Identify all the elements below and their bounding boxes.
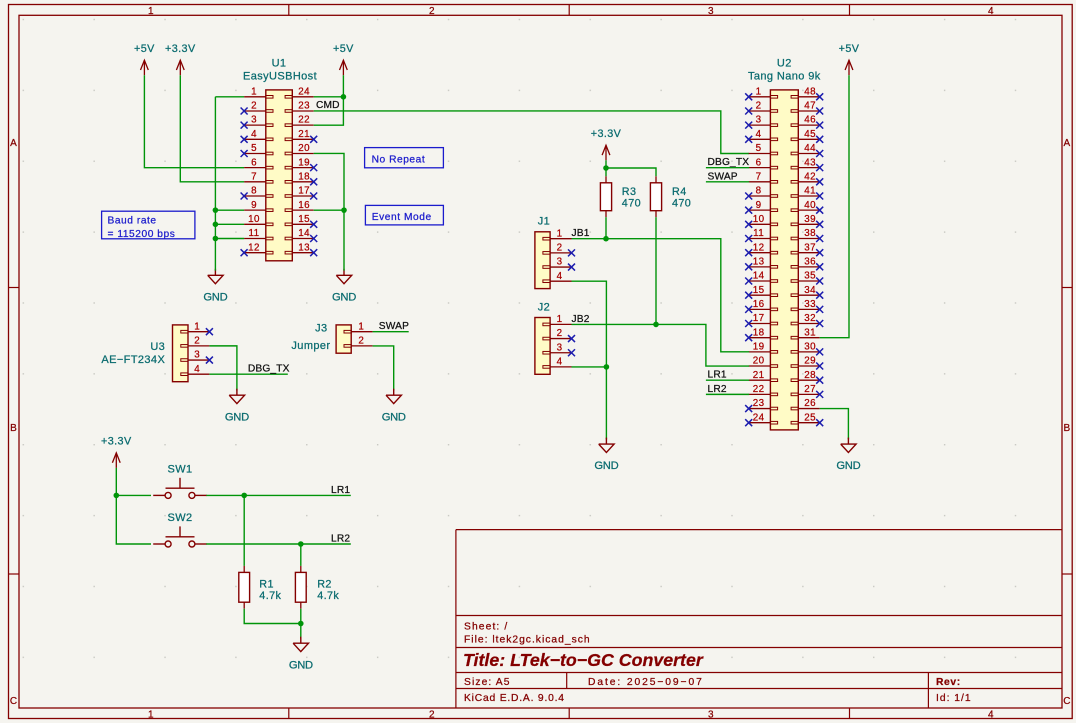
wire U1 pin22 up to +5V node [314,97,344,125]
svg-text:EasyUSBHost: EasyUSBHost [243,70,317,82]
svg-text:GND: GND [594,460,618,472]
svg-text:5: 5 [251,143,257,154]
wire U1 pin16 [314,209,344,211]
svg-text:37: 37 [804,242,816,253]
svg-text:1: 1 [358,321,364,332]
svg-text:SWAP: SWAP [708,171,738,182]
connector J1 body [535,232,550,289]
wire branch to R4 [606,168,656,176]
title block size field [464,677,511,688]
J2 reference label [538,302,550,314]
U2 value label Tang Nano 9k [748,70,821,82]
svg-text:LR1: LR1 [708,370,727,381]
wire R2 top [300,544,302,566]
J1 no-connect flags pins 2,3 [568,249,575,270]
U1 reference label [272,57,287,69]
wire J1 pin4 down to GND bus [572,281,607,439]
svg-text:1: 1 [756,86,762,97]
R4 value label 470 [672,198,691,210]
svg-text:DBG_TX: DBG_TX [248,364,290,375]
svg-text:18: 18 [298,171,310,182]
svg-text:15: 15 [298,214,310,225]
svg-text:16: 16 [753,299,765,310]
svg-text:GND: GND [382,411,406,423]
svg-text:4: 4 [194,364,200,375]
junction R4 / JB2 [653,322,659,328]
junction SW2 / R2 [298,541,304,547]
svg-text:U3: U3 [150,341,165,353]
junction SW1 / R1 [241,493,247,499]
junction +3.3V branch [603,165,609,171]
svg-text:2: 2 [557,242,563,253]
wire U2 pin22 LR2 [706,393,749,395]
svg-text:2: 2 [429,710,435,721]
net label LR1 at U2 pin21 [708,370,727,381]
R4 top pin stub [655,176,657,183]
svg-text:47: 47 [804,101,816,112]
switch SW2 [153,526,207,547]
svg-text:2: 2 [194,335,200,346]
U2 right pins 48-25 [791,96,820,425]
wire U1 pin9 [215,209,244,211]
svg-text:23: 23 [298,101,310,112]
svg-text:13: 13 [753,256,765,267]
svg-text:19: 19 [298,157,310,168]
svg-text:3: 3 [756,115,762,126]
net label CMD [316,100,340,111]
frame row ticks [9,288,1073,575]
svg-text:29: 29 [804,356,816,367]
wire U2 pin21 LR1 [706,379,749,381]
resistor R1 body [239,572,250,602]
svg-text:26: 26 [804,398,816,409]
connector J3 body [336,325,351,353]
R1 value label 4.7k [259,590,281,602]
wire vertical left bus to GND [214,97,216,271]
power symbol +5V right of U2 [839,43,860,75]
svg-text:R1: R1 [259,579,274,591]
svg-text:3: 3 [194,350,200,361]
svg-text:8: 8 [756,186,762,197]
U1 right pins 24-13 [285,96,314,254]
power symbol +5V left of U1 [134,43,155,75]
U1 no-connect flags left pins 2,3,4,5,8,12 [241,107,248,256]
svg-text:SW1: SW1 [167,464,192,476]
title block title field [463,650,704,670]
svg-text:No Repeat: No Repeat [372,154,426,165]
wire U1 pin20 down to pin16 and GND [314,153,344,270]
svg-text:LR1: LR1 [331,485,350,496]
svg-text:+5V: +5V [839,43,860,55]
junction U1 pin11 bus [213,236,219,242]
svg-text:5: 5 [756,143,762,154]
U1 right pin numbers [298,86,310,253]
svg-text:U2: U2 [777,57,792,69]
svg-text:470: 470 [672,198,691,210]
svg-text:10: 10 [248,214,260,225]
svg-text:2: 2 [756,101,762,112]
U2 reference label [777,57,792,69]
ground symbol below U2 [836,438,860,473]
svg-text:40: 40 [804,200,816,211]
resistor R4 body [650,183,661,211]
svg-text:23: 23 [753,398,765,409]
title block sheet field [464,621,508,632]
svg-text:28: 28 [804,370,816,381]
R2 reference label [317,579,332,591]
svg-text:2: 2 [358,336,364,347]
net label DBG_TX at U3 [248,364,290,375]
svg-text:4.7k: 4.7k [317,590,339,602]
wire U3 pin4 DBG_TX [209,373,287,375]
svg-text:JB2: JB2 [572,314,590,325]
J1 reference label [538,216,550,228]
svg-text:22: 22 [753,384,765,395]
svg-text:43: 43 [804,157,816,168]
svg-text:CMD: CMD [316,100,340,111]
connector J2 body [535,318,550,375]
svg-text:470: 470 [622,198,641,210]
wire U2 pin7 SWAP [706,181,749,183]
svg-text:38: 38 [804,228,816,239]
R4 bottom pin stub [655,211,657,218]
svg-text:19: 19 [753,341,765,352]
ground symbol below R1/R2 [289,637,313,672]
U2 left pin numbers [753,86,765,423]
svg-text:Sheet: /: Sheet: / [464,621,508,632]
wire U2 pin6 DBG_TX [706,167,749,169]
J3 pin numbers [358,321,364,346]
svg-text:25: 25 [804,412,816,423]
svg-text:17: 17 [753,313,765,324]
power symbol +5V right of U1 [333,43,354,75]
svg-text:1: 1 [194,321,200,332]
text box No Repeat [365,148,444,168]
svg-text:3: 3 [557,342,563,353]
wire J2 pin4 to GND bus [572,366,607,368]
wire +3.3V branch to SW1 [116,494,151,496]
svg-text:LR2: LR2 [331,534,350,545]
svg-text:39: 39 [804,214,816,225]
J3 value label Jumper [291,340,330,352]
svg-text:SWAP: SWAP [379,321,409,332]
svg-text:17: 17 [298,186,310,197]
svg-text:3: 3 [557,257,563,268]
J1 pins 1-4 [543,237,572,282]
svg-text:44: 44 [804,143,816,154]
svg-text:C: C [1063,696,1071,707]
title block date field [588,677,704,688]
svg-text:3: 3 [251,115,257,126]
net label LR1 [331,485,350,496]
J2 pins 1-4 [543,323,572,368]
J2 pin numbers [557,314,563,368]
svg-text:3: 3 [708,710,714,721]
U2 left pins 1-24 [749,96,778,425]
U2 right pin numbers [804,86,816,423]
svg-text:8: 8 [251,186,257,197]
junction +5V / pin24 / pin22 [341,94,347,100]
svg-text:4: 4 [557,357,563,368]
junction +3.3V / SW1 [114,493,120,499]
connector U1 EasyUSBHost body [266,90,293,261]
svg-text:Tang Nano 9k: Tang Nano 9k [748,70,821,82]
power symbol +3.3V above R3 [591,128,622,160]
ground symbol below U1 right [332,269,356,304]
U3 pins 1-4 [181,330,210,375]
svg-text:LR2: LR2 [708,384,727,395]
wire JB2 from J2 pin1 to U2 pin20 [572,324,750,366]
svg-text:15: 15 [753,285,765,296]
switch SW1 [153,478,207,499]
title block kicad version field [464,693,565,704]
svg-text:KiCad E.D.A. 9.0.4: KiCad E.D.A. 9.0.4 [464,693,565,704]
ground symbol below J3 [382,389,406,424]
svg-text:Date: 2025−09−07: Date: 2025−09−07 [588,677,704,688]
R4 reference label [672,186,687,198]
svg-text:6: 6 [756,157,762,168]
J1 pin numbers [557,228,563,282]
svg-text:21: 21 [753,370,765,381]
U1 left pin numbers [248,86,260,253]
svg-text:41: 41 [804,186,816,197]
svg-text:J3: J3 [315,323,327,335]
svg-text:9: 9 [251,200,257,211]
wire +5V to U2 pin31 [820,75,849,337]
resistor R3 body [600,183,611,211]
J2 no-connect flags pins 2,3 [568,335,575,356]
svg-text:20: 20 [753,356,765,367]
svg-text:Baud rate: Baud rate [108,215,157,226]
U3 pin numbers [194,321,200,375]
connector U3 body [173,325,189,382]
svg-text:J1: J1 [538,216,550,228]
svg-text:J2: J2 [538,302,550,314]
R1 bottom pin stub [243,602,245,609]
wire R3 bottom to JB1 net [605,217,607,239]
power symbol +3.3V left of U1 [165,43,196,75]
svg-text:16: 16 [298,200,310,211]
svg-text:Size: A5: Size: A5 [464,677,511,688]
wire U1 pin11 [215,238,244,240]
junction U1 pin9 bus [213,207,219,213]
title block id field [936,693,972,704]
svg-text:4: 4 [251,129,257,140]
svg-text:18: 18 [753,327,765,338]
junction R3 / JB1 [603,236,609,242]
svg-text:1: 1 [557,314,563,325]
svg-text:GND: GND [203,291,227,303]
svg-text:GND: GND [225,411,249,423]
wire U1 pin24 [314,96,344,98]
svg-text:= 115200 bps: = 115200 bps [108,229,176,240]
svg-text:10: 10 [753,214,765,225]
title block file field [464,635,591,646]
frame column ticks [289,5,850,719]
svg-text:20: 20 [298,143,310,154]
ground symbol below U3 [225,389,249,424]
text box Event Mode [365,205,443,225]
net label LR2 [331,534,350,545]
U3 reference label [150,341,165,353]
svg-text:14: 14 [298,228,310,239]
svg-text:24: 24 [753,412,765,423]
svg-text:Rev:: Rev: [936,677,961,688]
svg-text:Id: 1/1: Id: 1/1 [936,693,972,704]
svg-text:1: 1 [148,6,154,17]
R3 bottom pin stub [605,211,607,218]
connector U2 Tang Nano 9k body [770,90,798,430]
svg-text:GND: GND [332,291,356,303]
R1 reference label [259,579,274,591]
svg-text:File: ltek2gc.kicad_sch: File: ltek2gc.kicad_sch [464,635,591,646]
svg-text:+3.3V: +3.3V [591,128,622,140]
junction U1 pin16 [341,207,347,213]
resistor R2 body [295,572,306,602]
svg-text:1: 1 [557,228,563,239]
svg-text:31: 31 [804,327,816,338]
svg-text:R3: R3 [622,186,637,198]
svg-text:7: 7 [756,171,762,182]
U1 value label EasyUSBHost [243,70,317,82]
net label SWAP at U2 pin7 [708,171,738,182]
wire SW1 to LR1 [206,494,350,496]
U2 no-connect flags right [816,93,823,426]
svg-text:4: 4 [557,271,563,282]
U1 left pins 1-12 [244,96,273,254]
svg-text:4: 4 [756,129,762,140]
svg-text:+5V: +5V [134,43,155,55]
svg-text:9: 9 [756,200,762,211]
svg-text:36: 36 [804,256,816,267]
svg-text:1: 1 [251,86,257,97]
svg-text:24: 24 [298,86,310,97]
svg-text:A: A [1063,138,1070,149]
svg-text:DBG_TX: DBG_TX [708,157,750,168]
svg-text:GND: GND [836,460,860,472]
svg-text:+3.3V: +3.3V [101,436,132,448]
SW1 reference label [167,464,192,476]
wire U1 pin1 to left bus [215,96,244,98]
svg-text:11: 11 [249,228,260,239]
svg-text:21: 21 [298,129,310,140]
svg-text:A: A [10,138,17,149]
svg-text:C: C [10,696,18,707]
wire U3 pin2 to GND [209,346,237,391]
svg-text:27: 27 [804,384,816,395]
wire +3.3V to U1 pin7 [180,75,244,182]
R3 value label 470 [622,198,641,210]
svg-text:2: 2 [429,6,435,17]
svg-text:12: 12 [248,242,260,253]
wire +3.3V down to SW2 row [116,468,151,544]
U1 no-connect flags right pins 21,19,18,17,15,14,13 [310,136,317,256]
power symbol +3.3V above switches [101,436,132,468]
svg-text:34: 34 [804,285,816,296]
svg-text:SW2: SW2 [167,512,192,524]
frame column labels 1-4 [148,6,994,720]
svg-text:AE−FT234X: AE−FT234X [101,354,165,366]
svg-text:46: 46 [804,115,816,126]
wire SW2 to LR2 [206,543,350,545]
R1 top pin stub [243,566,245,573]
svg-text:30: 30 [804,341,816,352]
net label JB2 [572,314,590,325]
svg-text:42: 42 [804,171,816,182]
svg-text:11: 11 [753,228,764,239]
wire R2 bottom to GND [300,609,302,639]
svg-text:U1: U1 [272,57,287,69]
U3 value label AE-FT234X [101,354,165,366]
svg-text:45: 45 [804,129,816,140]
wire net CMD from U1 pin23 to U2 pin5 [314,111,750,154]
frame row labels A-C [10,138,1071,707]
junction J2 pin4 / GND bus [604,364,610,370]
ground symbol below U1 left [203,269,227,304]
svg-text:JB1: JB1 [572,228,590,239]
J3 pins 1-2 [344,330,373,347]
svg-text:14: 14 [753,271,765,282]
wire J3 pin2 to GND [373,346,394,391]
wire +5V to U1 pin24 [342,75,344,97]
wire R4 bottom to JB2 net [655,217,657,324]
svg-text:Event Mode: Event Mode [372,212,432,223]
svg-text:33: 33 [804,299,816,310]
svg-text:2: 2 [251,101,257,112]
U3 no-connect flags pins 1,3 [206,328,213,363]
title block frame [456,530,1062,708]
wire J3 pin1 SWAP [373,331,409,333]
svg-text:12: 12 [753,242,765,253]
net label SWAP at J3 [379,321,409,332]
svg-text:22: 22 [298,115,310,126]
svg-text:B: B [10,423,17,434]
ground symbol below J1/J2 [594,438,618,473]
svg-text:32: 32 [804,313,816,324]
svg-text:4.7k: 4.7k [259,590,281,602]
wire +5V to U1 pin6 [144,75,244,167]
svg-text:4: 4 [988,6,994,17]
junction U1 pin10 bus [213,222,219,228]
svg-text:3: 3 [708,6,714,17]
svg-text:48: 48 [804,86,816,97]
svg-text:+5V: +5V [333,43,354,55]
title block rev field [936,677,961,688]
svg-text:GND: GND [289,659,313,671]
SW2 reference label [167,512,192,524]
svg-text:R2: R2 [317,579,332,591]
svg-text:6: 6 [251,157,257,168]
svg-text:Jumper: Jumper [291,340,330,352]
svg-text:4: 4 [988,710,994,721]
svg-text:13: 13 [298,242,310,253]
wire U2 pin26 to GND [820,409,849,440]
R3 reference label [622,186,637,198]
net label LR2 at U2 pin22 [708,384,727,395]
wire +3.3V down to R3 [605,160,607,176]
svg-text:2: 2 [557,328,563,339]
svg-text:B: B [1063,423,1070,434]
net label DBG_TX at U2 pin6 [708,157,750,168]
U2 no-connect flags left [745,93,752,426]
junction R1 / R2 / GND [298,621,304,627]
wire JB1 from J1 pin1 to U2 pin19 [572,239,750,352]
svg-text:+3.3V: +3.3V [165,43,196,55]
wire R1 top [243,495,245,566]
R2 value label 4.7k [317,590,339,602]
svg-text:Title: LTek−to−GC Converter: Title: LTek−to−GC Converter [463,650,704,670]
svg-text:7: 7 [251,171,257,182]
